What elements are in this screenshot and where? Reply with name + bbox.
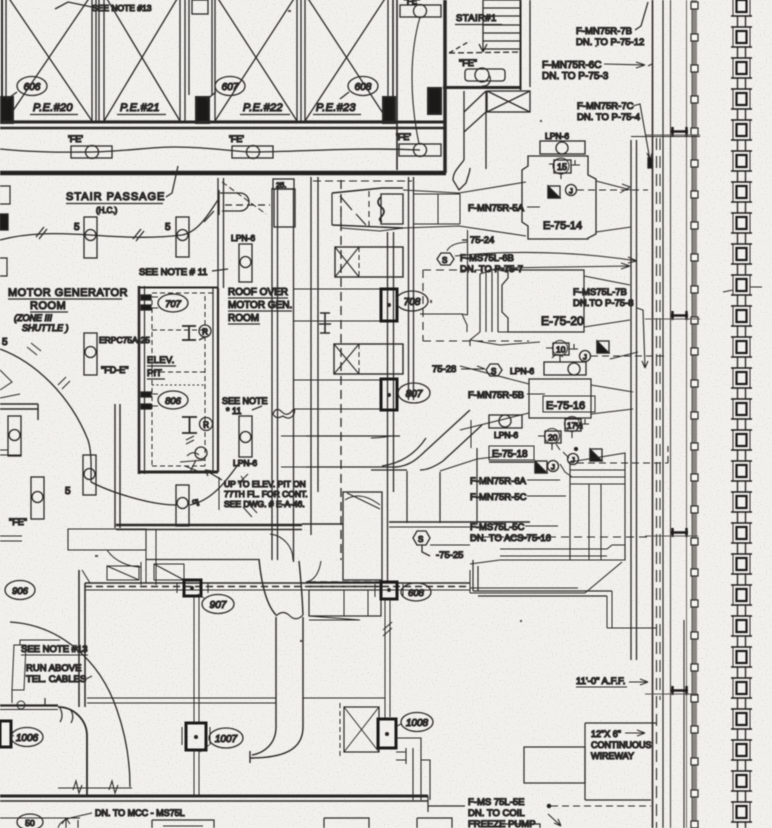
vertical line 907 to 1007 bbox=[194, 596, 199, 723]
oval tag 608 bbox=[348, 77, 378, 96]
LPN-6 low fixture bbox=[489, 415, 522, 428]
riser duct bundle near 75-24 bbox=[420, 230, 540, 346]
svg-text:(H.C.): (H.C.) bbox=[96, 206, 118, 215]
label P.E.#20 bbox=[30, 102, 78, 115]
svg-text:STAIR#1: STAIR#1 bbox=[456, 13, 497, 24]
small oval bottom bbox=[17, 814, 43, 828]
svg-text:E-75-20: E-75-20 bbox=[541, 314, 584, 328]
door hinge black rects mid bbox=[141, 392, 158, 409]
svg-text:20: 20 bbox=[548, 433, 558, 443]
LPN-6 pit fixture bbox=[239, 416, 252, 457]
svg-text:DN. TO MCC - MS75L: DN. TO MCC - MS75L bbox=[95, 808, 185, 818]
break tick on line bbox=[383, 622, 392, 636]
label P.E.#22 bbox=[240, 102, 290, 115]
leader 606 bbox=[6, 92, 17, 100]
stair room right wall bbox=[520, 0, 522, 90]
LPN-6 fixture top bbox=[540, 141, 585, 154]
divider wall small box between banks bbox=[192, 0, 208, 14]
FE fixture 1 bbox=[71, 146, 112, 159]
svg-text:50: 50 bbox=[25, 818, 35, 828]
svg-text:J: J bbox=[569, 187, 573, 196]
left edge cut fragments bbox=[0, 186, 22, 541]
wall down to bottom bbox=[86, 736, 88, 796]
oval tag 906 bbox=[5, 581, 35, 600]
grey mullion band with clips bbox=[692, 0, 697, 828]
svg-text:F-MN75R-6C: F-MN75R-6C bbox=[542, 60, 601, 71]
label F-MN75R-5C bbox=[470, 492, 566, 503]
tiny arrow bottom bbox=[62, 818, 78, 828]
duct from motor room bbox=[68, 529, 156, 583]
svg-text:-75-25: -75-25 bbox=[436, 550, 463, 561]
dashed riser lines bbox=[656, 138, 658, 828]
unit E-75-14 bbox=[522, 156, 596, 239]
valve 10 bbox=[546, 341, 578, 363]
J circle E7520 bbox=[580, 351, 591, 362]
svg-text:708: 708 bbox=[404, 297, 421, 308]
stair room left wall bbox=[443, 0, 447, 173]
hatch diag on wall end bbox=[243, 503, 257, 517]
stair passage south wall thick bbox=[0, 171, 446, 176]
transitions left of E7516 bbox=[460, 366, 529, 430]
alley dashed centerline bbox=[340, 180, 342, 560]
elevator shaft P.E.#20 bbox=[2, 0, 92, 121]
svg-text:12"X 6": 12"X 6" bbox=[591, 729, 621, 739]
arrow on conduit bbox=[238, 474, 248, 484]
see note 11 right bbox=[222, 396, 268, 416]
hex S upper bbox=[437, 242, 468, 265]
svg-text:607: 607 bbox=[222, 82, 239, 93]
svg-text:P.E.#21: P.E.#21 bbox=[120, 102, 160, 114]
svg-text:F-MS75L-7B: F-MS75L-7B bbox=[573, 287, 627, 298]
label F-MN75R-7C bbox=[577, 101, 652, 160]
oval tag 1006 bbox=[11, 728, 43, 747]
small wedges upper left bbox=[0, 370, 20, 398]
svg-text:DN. TO COIL: DN. TO COIL bbox=[468, 808, 525, 819]
svg-text:"FE": "FE" bbox=[404, 0, 420, 6]
bottom thick wall bbox=[0, 795, 428, 798]
svg-text:DN. TO P-75-4: DN. TO P-75-4 bbox=[577, 112, 640, 123]
stair room bottom wall bbox=[443, 86, 521, 89]
grille box B with X bbox=[334, 344, 403, 374]
svg-text:10: 10 bbox=[556, 345, 566, 355]
FE fixture top edge bbox=[400, 0, 441, 18]
wireway wall lines lower bbox=[686, 0, 688, 828]
fixture at arc end bbox=[83, 455, 96, 495]
stair up-break dashed bbox=[449, 52, 521, 53]
label F-MN75R-5B bbox=[468, 390, 545, 401]
label E-75-18 bbox=[489, 446, 534, 462]
svg-text:J: J bbox=[583, 353, 587, 362]
see note 11 bbox=[139, 267, 228, 278]
svg-text:906: 906 bbox=[12, 586, 29, 597]
wall line x670 bbox=[670, 0, 672, 828]
oval tag 907 bbox=[198, 594, 234, 614]
duct elbow to E-75-18 drop bbox=[371, 420, 502, 525]
svg-text:707: 707 bbox=[165, 299, 182, 310]
alley verticals east bbox=[388, 232, 394, 581]
fixture ERPC bbox=[84, 333, 97, 375]
duct band alley to E-75-14 bbox=[414, 194, 460, 224]
big elbow duct down bbox=[146, 559, 381, 763]
SEE NOTE 13 note bbox=[21, 644, 92, 685]
label 75-28 bbox=[432, 364, 485, 375]
svg-text:* 11: * 11 bbox=[226, 406, 241, 416]
content sections inserted below bbox=[0, 0, 445, 170]
dashed control line E-75-14 bbox=[577, 189, 648, 191]
svg-text:MOTOR GENERATOR: MOTOR GENERATOR bbox=[8, 287, 128, 299]
alley vertical x293 bbox=[293, 188, 295, 562]
up-to-elev note bbox=[205, 470, 308, 510]
svg-text:WIREWAY: WIREWAY bbox=[591, 751, 634, 761]
door frame dark rect mid bbox=[196, 97, 209, 123]
hex S valve low bbox=[413, 531, 430, 556]
duct alley east edge verticals bbox=[631, 140, 637, 660]
svg-text:F-MN75R-7B: F-MN75R-7B bbox=[576, 26, 632, 37]
LPN-6 upper fixture bbox=[239, 244, 252, 282]
svg-text:E-75-16: E-75-16 bbox=[546, 400, 585, 412]
long conduit curve to arrows bbox=[455, 252, 637, 263]
fixture mid bottom bbox=[176, 485, 189, 526]
svg-text:608: 608 bbox=[408, 588, 425, 599]
room top hatched wall band bbox=[85, 583, 470, 590]
damper fixture 708 bbox=[381, 289, 397, 321]
label 11-0 AFF bbox=[576, 676, 648, 687]
svg-text:P.E.#20: P.E.#20 bbox=[33, 102, 73, 114]
svg-text:LPN-6: LPN-6 bbox=[545, 131, 569, 141]
flex connector squiggle bbox=[378, 197, 384, 222]
oval tag 1007 bbox=[200, 728, 243, 752]
room mid horizontal lines bbox=[87, 698, 276, 703]
fixture 908 bbox=[375, 582, 403, 599]
motor room bottom wall segment right bbox=[302, 522, 530, 524]
DN TO MCC label bbox=[58, 808, 185, 828]
box left of wireway bbox=[524, 747, 585, 783]
svg-text:R: R bbox=[203, 421, 209, 430]
pit inner dashed cage bbox=[152, 296, 205, 466]
unit E-75-20 bbox=[502, 270, 630, 332]
bottom edge fragments bbox=[0, 818, 540, 828]
svg-text:"FD-E": "FD-E" bbox=[101, 365, 128, 375]
LPN-6 mid fixture bbox=[544, 355, 586, 375]
svg-text:F-MN75R-5C: F-MN75R-5C bbox=[470, 492, 527, 503]
svg-text:17½: 17½ bbox=[567, 422, 583, 431]
svg-text:ROOM: ROOM bbox=[228, 313, 259, 324]
label F-MN75R-7B bbox=[576, 2, 648, 48]
grille X-box next to stair bbox=[487, 91, 530, 112]
break squiggle bbox=[276, 613, 303, 619]
svg-text:5: 5 bbox=[65, 486, 71, 497]
leader L mark bbox=[556, 444, 572, 477]
stepped rects below 1008 bbox=[396, 738, 430, 800]
svg-text:F-MN75R-5A: F-MN75R-5A bbox=[468, 203, 525, 214]
duct low wide bbox=[500, 545, 625, 560]
valve 15 bbox=[549, 158, 580, 179]
door frame dark rect right bbox=[383, 97, 395, 123]
grille X box bottom bbox=[340, 703, 379, 756]
svg-text:15: 15 bbox=[557, 162, 567, 172]
svg-text:606: 606 bbox=[24, 82, 41, 93]
tick lines at columns bbox=[645, 135, 700, 694]
svg-text:ROOF OVER: ROOF OVER bbox=[228, 287, 288, 298]
roof-over strip left walls bbox=[218, 178, 224, 288]
corner arc bbox=[58, 707, 87, 736]
FE fixture stair bbox=[465, 68, 505, 86]
fixture 5a bbox=[84, 217, 97, 258]
J circle a bbox=[568, 454, 579, 465]
svg-text:806: 806 bbox=[165, 396, 182, 407]
svg-text:807: 807 bbox=[406, 389, 423, 400]
svg-text:11'-0" A.F.F.: 11'-0" A.F.F. bbox=[576, 676, 625, 687]
svg-text:ERPC75A-25: ERPC75A-25 bbox=[99, 335, 150, 345]
unit E-75-16 bbox=[529, 379, 633, 418]
oval tag 607 bbox=[215, 77, 245, 96]
door hinge black rects top bbox=[141, 295, 158, 310]
break marks bbox=[73, 781, 118, 793]
elev pit outer box bbox=[139, 286, 218, 474]
svg-text:SEE DWG. # E-A-46.: SEE DWG. # E-A-46. bbox=[224, 499, 305, 509]
svg-text:F-MN75R-6A: F-MN75R-6A bbox=[470, 476, 527, 487]
corridor wall pair full height bbox=[652, 0, 654, 828]
svg-text:CONTINUOUS: CONTINUOUS bbox=[591, 740, 652, 750]
unit E-75-18 body bbox=[570, 453, 625, 560]
duct transition left of E-75-20 bbox=[462, 270, 508, 315]
svg-text:25.: 25. bbox=[276, 181, 286, 190]
svg-text:75-24: 75-24 bbox=[470, 235, 494, 246]
svg-text:1007: 1007 bbox=[215, 734, 238, 745]
wire box 25 bbox=[273, 179, 295, 227]
duct drop from stair room bbox=[453, 91, 486, 190]
branch lines to 708 bbox=[293, 289, 381, 321]
damper E7520 bbox=[597, 341, 609, 353]
damper fixture 807 bbox=[381, 379, 397, 410]
svg-text:S: S bbox=[418, 535, 423, 544]
svg-text:'FE': 'FE' bbox=[68, 134, 83, 144]
circled R lower bbox=[200, 418, 213, 431]
svg-text:PIT: PIT bbox=[147, 368, 162, 379]
svg-text:FREEZE PUMP: FREEZE PUMP bbox=[468, 819, 536, 828]
conduit curve lower bbox=[91, 482, 176, 505]
line below 1007 bbox=[194, 750, 199, 796]
svg-text:5: 5 bbox=[165, 222, 171, 233]
transition E-75-14 to riser bbox=[596, 181, 631, 232]
label 75-24 bbox=[462, 235, 494, 246]
dashed line to wall low bbox=[470, 536, 651, 538]
door frame dark rect corridor bbox=[428, 88, 441, 114]
roof over motor gen room label bbox=[228, 287, 292, 324]
I column symbol lower bbox=[182, 417, 197, 433]
grille box A with X bbox=[335, 247, 403, 277]
svg-text:LPN-6: LPN-6 bbox=[231, 233, 255, 243]
elevator shaft P.E.#21 bbox=[96, 0, 185, 121]
ELEV PIT label bbox=[147, 355, 176, 379]
top-right notch walls bbox=[473, 560, 656, 628]
svg-text:"FE": "FE" bbox=[459, 58, 477, 68]
label F-MS75L-6B bbox=[460, 253, 523, 275]
svg-text:ELEV.: ELEV. bbox=[147, 355, 175, 366]
elevator shaft P.E.#22 bbox=[215, 0, 301, 121]
svg-text:907: 907 bbox=[210, 600, 227, 611]
damper b bbox=[535, 461, 547, 473]
oval tag 908 bbox=[401, 583, 431, 601]
damper a bbox=[590, 449, 602, 461]
dashed control lower bbox=[577, 446, 668, 463]
dashed control E7520 bbox=[591, 355, 668, 357]
bank bottom wall (double thick) bbox=[0, 121, 445, 124]
line under 75-25 bbox=[430, 544, 470, 546]
oval tag 806 bbox=[158, 391, 188, 409]
vertical from 908 down bbox=[385, 599, 390, 719]
oval tag 1008 bbox=[397, 713, 433, 732]
curtain wall big square chain bbox=[723, 0, 762, 828]
svg-text:(ZONE III: (ZONE III bbox=[14, 313, 52, 323]
fixture 5b bbox=[176, 217, 189, 257]
STAIR #1 label bbox=[455, 13, 502, 25]
room bottom wall bbox=[116, 524, 302, 527]
FE conduit wavy line bbox=[0, 147, 420, 152]
fixture in left room a bbox=[8, 416, 21, 456]
svg-text:75-28: 75-28 bbox=[432, 364, 456, 375]
door arc at wall opening bbox=[270, 534, 293, 560]
label F-MN75R-5A bbox=[468, 203, 540, 214]
FE fixture 3 bbox=[399, 144, 441, 157]
pit top dashed line bbox=[152, 292, 213, 294]
fixture in left room b bbox=[31, 477, 44, 519]
label F-MS75L-5C bbox=[470, 522, 558, 544]
hatched damper boxes in duct bbox=[107, 562, 184, 585]
label P.E.#21 bbox=[117, 102, 166, 115]
svg-text:STAIR PASSAGE: STAIR PASSAGE bbox=[66, 191, 165, 203]
svg-text:J: J bbox=[551, 463, 555, 472]
svg-text:E-75-14: E-75-14 bbox=[543, 220, 582, 232]
fixture 907 bbox=[177, 580, 208, 596]
svg-text:F-MS75L-5C: F-MS75L-5C bbox=[470, 522, 525, 533]
svg-text:DN. TO ACS-75-16: DN. TO ACS-75-16 bbox=[470, 533, 551, 544]
duct box at transition right bbox=[381, 194, 403, 224]
corridor duct top horizontal bbox=[631, 136, 700, 138]
hatch marks on conduit bbox=[36, 227, 47, 239]
svg-text:5: 5 bbox=[2, 337, 8, 348]
misc scan specks bbox=[95, 10, 597, 642]
label F-MN75R-6A bbox=[470, 476, 560, 487]
room left wall upper bbox=[79, 570, 85, 707]
cable whiskers bbox=[45, 698, 73, 723]
valve 20 bbox=[538, 429, 561, 451]
dashed zone rect bbox=[423, 270, 529, 341]
note 13 text bbox=[55, 2, 152, 13]
svg-text:S: S bbox=[442, 256, 447, 265]
svg-text:E-75-18: E-75-18 bbox=[492, 449, 528, 460]
sub room wall horizontal bbox=[0, 704, 58, 706]
svg-text:TEL. CABLES: TEL. CABLES bbox=[26, 674, 86, 685]
svg-text:SEE NOTE # 11: SEE NOTE # 11 bbox=[139, 267, 207, 278]
wireway box bbox=[585, 723, 656, 800]
svg-text:SHUTTLE ): SHUTTLE ) bbox=[22, 323, 69, 333]
diag duct from SE bbox=[281, 410, 482, 470]
wall band right segment to 908 bbox=[309, 582, 381, 587]
fixture 1007 bbox=[182, 723, 210, 750]
svg-text:RUN ABOVE: RUN ABOVE bbox=[26, 663, 81, 674]
wide drop duct below bbox=[343, 492, 382, 580]
small dot arrow bbox=[563, 452, 569, 458]
hanging duct below wall bbox=[309, 590, 381, 620]
hex S mid left bbox=[486, 364, 502, 376]
stair stringer with down arrow bbox=[479, 0, 487, 52]
svg-text:DN. TO P-75-3: DN. TO P-75-3 bbox=[542, 71, 609, 82]
svg-text:ROOM: ROOM bbox=[30, 300, 66, 312]
svg-text:P.E.#23: P.E.#23 bbox=[316, 102, 356, 114]
svg-text:1006: 1006 bbox=[16, 733, 39, 744]
svg-text:MOTOR GEN.: MOTOR GEN. bbox=[228, 300, 292, 311]
svg-text:SEE NOTE: SEE NOTE bbox=[222, 396, 268, 406]
alley verticals x311 x318 bbox=[311, 177, 318, 535]
big quarter conduit arc bbox=[10, 622, 130, 787]
svg-text:LPN-6: LPN-6 bbox=[510, 366, 534, 376]
left room walls bbox=[0, 404, 120, 528]
I column symbol upper bbox=[182, 326, 196, 340]
svg-text:DN.TO P-75-8: DN.TO P-75-8 bbox=[573, 298, 634, 309]
svg-text:77TH FL. FOR CONT.: 77TH FL. FOR CONT. bbox=[224, 489, 308, 499]
door swing big arc bbox=[0, 349, 91, 482]
svg-text:R: R bbox=[202, 328, 208, 337]
oval tag 708 bbox=[396, 291, 428, 311]
line under breaks bbox=[58, 787, 132, 789]
chain tick at 288 bbox=[723, 287, 762, 292]
duct below to freeze pump bbox=[470, 560, 622, 593]
label F-MS75L-7B bbox=[573, 287, 648, 368]
svg-text:F-MS 75L-5E: F-MS 75L-5E bbox=[468, 797, 525, 808]
spectacles flex symbol bbox=[273, 409, 295, 418]
svg-text:F-MN75R-7C: F-MN75R-7C bbox=[577, 101, 634, 112]
conduit between FE fixtures bbox=[412, 17, 420, 144]
oval tag 807 bbox=[398, 383, 430, 403]
svg-text:LPN-6: LPN-6 bbox=[494, 430, 518, 440]
svg-text:608: 608 bbox=[355, 82, 372, 93]
alley long verticals west pair bbox=[272, 188, 278, 560]
fixture 1006 bbox=[0, 721, 11, 747]
pit bottom hardware bbox=[180, 447, 207, 472]
svg-text:P.E.#22: P.E.#22 bbox=[243, 102, 283, 114]
svg-text:F-MN75R-5B: F-MN75R-5B bbox=[468, 390, 524, 401]
svg-text:'FE': 'FE' bbox=[396, 132, 411, 142]
FE fixture 2 bbox=[232, 146, 273, 159]
svg-text:5: 5 bbox=[74, 222, 80, 233]
fixture 1008 bbox=[378, 719, 396, 748]
motor generator room label bbox=[8, 287, 128, 333]
hash mark below I bbox=[186, 436, 194, 444]
door pocket at passage right bbox=[220, 193, 249, 211]
top transition ducts bbox=[313, 181, 526, 236]
stair passage label bbox=[66, 166, 178, 215]
svg-text:DN. TO P-75-12: DN. TO P-75-12 bbox=[576, 37, 644, 48]
J circle bbox=[566, 185, 577, 196]
label F-MS75L-5E bbox=[468, 797, 651, 828]
corridor conduit wavy line bbox=[0, 200, 218, 240]
label F-MN75R-6C bbox=[542, 60, 652, 82]
elbow at bottom to left bbox=[250, 727, 303, 758]
circled R upper bbox=[199, 325, 211, 340]
door frame dark rect left bbox=[1, 97, 13, 123]
steel column I-beam symbols on wall bbox=[671, 127, 688, 695]
svg-text:UP TO ELEV. PIT ON: UP TO ELEV. PIT ON bbox=[224, 479, 306, 489]
oval tag 707 bbox=[158, 294, 188, 312]
arc hatch marks bbox=[27, 343, 41, 355]
dashed roof outline bbox=[225, 204, 270, 206]
svg-text:J: J bbox=[571, 456, 575, 465]
valve 17 bbox=[565, 417, 590, 439]
svg-text:1008: 1008 bbox=[406, 718, 429, 729]
small column mark mid alley bbox=[319, 313, 331, 333]
svg-text:'FE': 'FE' bbox=[229, 134, 244, 144]
